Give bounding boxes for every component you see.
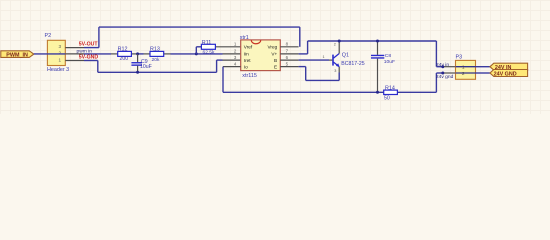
svg-text:xtr1: xtr1 bbox=[240, 35, 249, 41]
svg-text:Vreg: Vreg bbox=[267, 45, 277, 50]
svg-text:24V GND: 24V GND bbox=[494, 71, 517, 77]
svg-text:10uF: 10uF bbox=[140, 64, 152, 70]
svg-text:Header 3: Header 3 bbox=[47, 67, 69, 73]
svg-text:V+: V+ bbox=[271, 52, 277, 57]
svg-text:1: 1 bbox=[322, 55, 324, 59]
svg-text:24V IN: 24V IN bbox=[495, 65, 512, 71]
svg-text:Io: Io bbox=[244, 64, 248, 69]
svg-text:2: 2 bbox=[334, 43, 336, 47]
svg-text:3: 3 bbox=[58, 44, 61, 49]
svg-text:R12: R12 bbox=[118, 46, 128, 52]
svg-text:200: 200 bbox=[120, 56, 129, 62]
svg-text:xtr115: xtr115 bbox=[242, 73, 257, 79]
svg-text:5V-GND: 5V-GND bbox=[79, 55, 99, 61]
svg-text:3: 3 bbox=[334, 69, 336, 73]
svg-text:5V-OUT: 5V-OUT bbox=[79, 41, 99, 47]
svg-text:pwm in: pwm in bbox=[77, 48, 93, 54]
svg-text:24v in: 24v in bbox=[436, 62, 449, 68]
svg-text:BC817-25: BC817-25 bbox=[341, 61, 364, 67]
svg-text:C8: C8 bbox=[385, 53, 392, 59]
svg-text:20k: 20k bbox=[152, 57, 160, 63]
svg-text:R11: R11 bbox=[202, 40, 212, 46]
svg-text:24v gnd: 24v gnd bbox=[436, 74, 454, 80]
svg-text:R14: R14 bbox=[385, 85, 395, 91]
svg-text:Q1: Q1 bbox=[342, 53, 349, 59]
svg-text:50: 50 bbox=[384, 95, 390, 101]
svg-text:Vref: Vref bbox=[244, 45, 253, 50]
svg-text:E: E bbox=[274, 64, 277, 69]
svg-text:10uF: 10uF bbox=[384, 59, 395, 65]
svg-text:P2: P2 bbox=[45, 33, 52, 39]
svg-text:R13: R13 bbox=[150, 46, 160, 52]
svg-text:62.5k: 62.5k bbox=[203, 50, 216, 56]
svg-text:PWM_IN: PWM_IN bbox=[6, 53, 28, 59]
svg-text:B: B bbox=[274, 58, 277, 63]
svg-text:1: 1 bbox=[58, 58, 61, 63]
svg-text:Iin: Iin bbox=[244, 52, 249, 57]
svg-text:Iret: Iret bbox=[244, 58, 251, 63]
svg-text:P3: P3 bbox=[456, 55, 463, 61]
